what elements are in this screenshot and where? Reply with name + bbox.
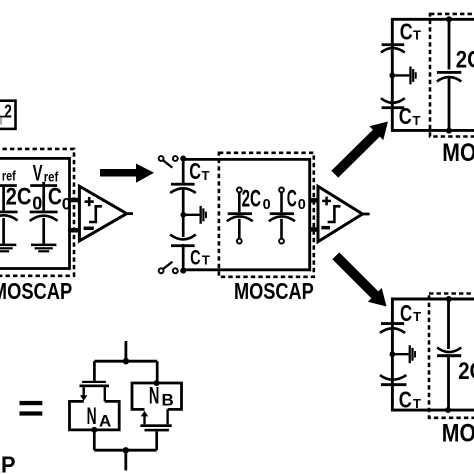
wire left vertical block2	[182, 157, 185, 272]
capacitor C0 block1	[30, 182, 58, 244]
wire op-amp U1 - input	[68, 228, 79, 233]
MOSCAP block2 dashed box	[219, 153, 314, 277]
capacitor C0 block2	[269, 188, 295, 244]
wire NB gate stub	[155, 431, 158, 450]
svg-text:T: T	[413, 309, 421, 324]
legend gray swatch	[0, 118, 2, 125]
node dot top rail	[123, 358, 129, 364]
MOSCAP block1 solid box	[0, 158, 70, 268]
label CT top block4	[400, 300, 421, 326]
MOSCAP block1 dashed box	[0, 149, 74, 276]
capacitor 2C0 block2	[227, 188, 253, 244]
wire bottom stub	[124, 450, 127, 470]
wire op-amp U1 + input	[68, 198, 79, 203]
MOSCAP block4 dashed box (clipped right)	[429, 294, 474, 418]
svg-text:ref: ref	[44, 170, 59, 185]
wire NA to bottom rail	[93, 430, 96, 450]
svg-text:0: 0	[298, 197, 306, 213]
node dot NB top	[154, 380, 160, 386]
svg-text:2C: 2C	[242, 186, 261, 213]
svg-text:C: C	[189, 158, 201, 184]
svg-text:C: C	[399, 387, 412, 413]
equals sign	[20, 401, 43, 416]
capacitor CT top block4	[380, 322, 405, 333]
wire NA gate stub	[93, 361, 96, 381]
svg-text:0: 0	[263, 197, 271, 213]
wire inner vertical block3	[448, 19, 451, 130]
svg-text:T: T	[413, 28, 421, 43]
svg-text:MOSCAP: MOSCAP	[442, 139, 474, 167]
ground block1 left	[0, 244, 16, 253]
capacitor 2C block3	[437, 71, 461, 81]
node junction bottom	[180, 268, 186, 274]
svg-text:T: T	[202, 253, 210, 268]
svg-text:2C: 2C	[458, 358, 474, 385]
svg-text:0: 0	[62, 195, 71, 214]
label 2C0 block1	[6, 184, 43, 214]
label NB	[149, 383, 174, 410]
switch S2 (bottom)	[159, 262, 178, 274]
node dot bottom rail	[123, 447, 129, 453]
wire bottom rail block2	[183, 268, 310, 271]
svg-text:2C: 2C	[6, 184, 32, 211]
capacitor 2C0 block1	[0, 184, 18, 243]
capacitor CT bottom block3	[381, 98, 405, 109]
box NB	[132, 383, 182, 409]
svg-text:MOSCAP: MOSCAP	[442, 419, 474, 447]
svg-text:C: C	[287, 186, 297, 213]
wire inner vertical block4	[447, 299, 450, 410]
label CT top block3	[400, 19, 421, 45]
svg-text:C: C	[190, 246, 201, 270]
svg-text:T: T	[413, 396, 421, 411]
wires block3 (top right): left vertical + top + bottom rails	[392, 19, 474, 130]
label C0 block2	[287, 186, 306, 213]
wire top rail	[94, 360, 157, 363]
MOSCAP block3 dashed box (clipped right)	[430, 14, 474, 137]
ground block1 right	[31, 244, 56, 253]
node junction + ground block3	[389, 67, 416, 85]
node dots block4	[446, 296, 452, 302]
transistor NA	[80, 381, 110, 402]
label CT top block2	[189, 158, 209, 184]
svg-text:T: T	[202, 168, 210, 183]
arrow diagonal up-right	[331, 122, 388, 178]
svg-text:A: A	[99, 412, 111, 431]
capacitor CT bottom block4	[380, 375, 406, 386]
legend bar	[0, 116, 5, 118]
label NA	[87, 403, 112, 430]
label CT bottom block4	[399, 387, 421, 413]
label CT bottom block3	[399, 103, 421, 129]
wire top stub	[125, 341, 128, 361]
svg-text:N: N	[149, 383, 160, 410]
box NA	[70, 401, 120, 430]
node dots block3	[446, 16, 452, 22]
wire top rail block2	[183, 158, 310, 161]
svg-text:MOSCAP: MOSCAP	[234, 278, 314, 304]
wires block4 (bottom right): left vertical + top + bottom rails	[392, 299, 474, 410]
svg-text:B: B	[162, 391, 174, 410]
wire bottom rail	[94, 449, 156, 452]
svg-text:MOSCAP: MOSCAP	[0, 451, 16, 474]
svg-text:N: N	[87, 403, 97, 430]
svg-text:C: C	[48, 184, 62, 211]
wire op-amp U2 + input	[310, 198, 318, 203]
svg-text:C: C	[400, 19, 413, 45]
switch S1 (top)	[159, 156, 178, 168]
label CT bottom block2	[190, 246, 210, 270]
label C0 block1	[48, 184, 71, 214]
svg-text:2C: 2C	[456, 47, 474, 74]
legend box	[0, 101, 16, 129]
arrow right	[100, 164, 154, 183]
node dot NA bottom	[91, 427, 97, 433]
node Vref label (right)	[33, 161, 59, 186]
node junction + ground block4	[390, 345, 417, 363]
node junction middle + ground block2	[180, 206, 206, 224]
svg-text:ref: ref	[2, 169, 16, 184]
op-amp U2 integrator	[318, 186, 370, 241]
node junction top	[180, 156, 186, 162]
svg-text:C: C	[399, 103, 412, 129]
transistor NB	[140, 409, 171, 431]
wire NB top connection	[156, 361, 159, 383]
svg-text:MOSCAP: MOSCAP	[0, 278, 72, 304]
svg-text:T: T	[413, 113, 421, 128]
capacitor 2C block4	[437, 348, 461, 358]
wire op-amp U2 - input	[310, 227, 318, 232]
capacitor CT top block2	[170, 183, 196, 193]
label 2C0 block2	[242, 186, 271, 213]
svg-text:2: 2	[4, 100, 12, 121]
capacitor CT bottom block2	[170, 235, 196, 248]
wire right edge block2	[308, 158, 311, 271]
arrow diagonal down-right	[332, 252, 386, 306]
svg-text:V: V	[33, 161, 43, 186]
capacitor CT top block3	[381, 43, 405, 52]
op-amp U1 integrator	[79, 186, 133, 241]
